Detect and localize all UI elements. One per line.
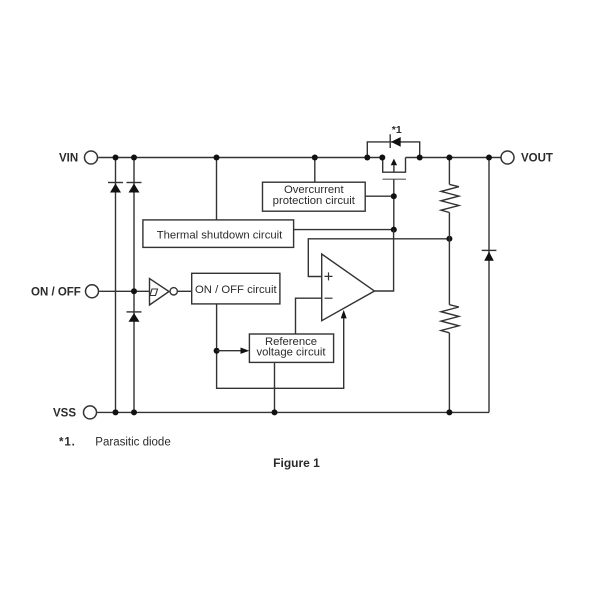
- wire op-amp output to gate node: [375, 230, 394, 291]
- junction gate-overcurrent: [391, 193, 397, 199]
- resistor R2: [441, 305, 459, 333]
- svg-text:Figure 1: Figure 1: [273, 456, 320, 470]
- box reference voltage circuit: [249, 334, 333, 362]
- label reference voltage circuit: [256, 336, 326, 359]
- wire VSS rail: [97, 411, 489, 413]
- junction VSS-A: [113, 409, 119, 415]
- junction VSS-R2: [446, 409, 452, 415]
- wire overcurrent box top to VIN rail: [314, 158, 316, 183]
- box thermal shutdown circuit: [143, 220, 294, 248]
- terminal VSS: [84, 406, 97, 419]
- junction reference-node: [214, 348, 220, 354]
- wire reference box top to op-amp minus input: [296, 298, 322, 334]
- junction VIN-B: [131, 155, 137, 161]
- junction gate-thermal-opamp: [391, 227, 397, 233]
- wire VIN rail right segment: [406, 157, 501, 159]
- svg-text:Thermal shutdown circuit: Thermal shutdown circuit: [157, 230, 283, 242]
- svg-text:VOUT: VOUT: [521, 153, 553, 165]
- junction feedback tap: [446, 236, 452, 242]
- box ON / OFF circuit: [192, 273, 280, 304]
- junction rail-loop-right: [417, 155, 423, 161]
- wire thermal box top to VIN rail: [216, 158, 218, 220]
- wire VOUT branch to resistor divider: [448, 158, 450, 185]
- wire ESD line B lower (ON/OFF to VSS): [133, 291, 135, 412]
- svg-text:*1.: *1.: [59, 437, 76, 449]
- junction VIN-A: [113, 155, 119, 161]
- wire overcurrent box to gate node: [365, 195, 394, 197]
- junction rail-M1-left: [379, 155, 385, 161]
- diode D2 (ESD, line B): [127, 183, 142, 193]
- wire op-amp plus input: [308, 239, 449, 277]
- terminal ON / OFF: [86, 285, 99, 298]
- svg-text:ON / OFF: ON / OFF: [31, 286, 81, 298]
- junction VIN-thermal: [214, 155, 220, 161]
- junction rail-loop-left: [364, 155, 370, 161]
- junction VIN rail-D4: [486, 155, 492, 161]
- label overcurrent protection circuit: [273, 184, 356, 207]
- transistor M1 (PMOS pass transistor): [383, 158, 406, 173]
- wire R2 to VSS: [448, 333, 450, 413]
- wire reference box bottom to VSS: [274, 362, 276, 412]
- wire ESD line A (VIN to VSS): [115, 158, 117, 413]
- resistor R1: [441, 184, 459, 212]
- wire ON/OFF box to reference node: [217, 304, 344, 388]
- parasitic diode *1: [390, 134, 401, 148]
- wire R1 to tap: [448, 213, 450, 305]
- svg-text:Parasitic diode: Parasitic diode: [95, 437, 170, 449]
- svg-text:ON / OFF circuit: ON / OFF circuit: [195, 284, 277, 296]
- gate bar of M1: [383, 178, 407, 180]
- diode D1 (ESD, line A): [108, 183, 123, 193]
- svg-text:voltage circuit: voltage circuit: [256, 347, 326, 359]
- Schmitt inverter U2: [150, 279, 178, 306]
- junction VSS-B: [131, 409, 137, 415]
- junction ON/OFF-B: [131, 288, 137, 294]
- op-amp U1: [322, 254, 375, 321]
- svg-text:protection circuit: protection circuit: [273, 195, 356, 207]
- svg-text:VIN: VIN: [59, 153, 78, 165]
- wire arrow into reference box: [217, 350, 241, 352]
- box overcurrent protection circuit: [263, 182, 366, 211]
- junction VSS-reference: [272, 409, 278, 415]
- diode D3 (ESD, line B lower): [127, 312, 142, 322]
- diode D4 (VSS to VOUT): [482, 250, 497, 260]
- wire VIN rail left segment: [98, 157, 383, 159]
- svg-text:VSS: VSS: [53, 408, 76, 420]
- wire inverter to ON/OFF box: [177, 290, 191, 292]
- wire ESD line B upper (VIN to ON/OFF): [133, 158, 135, 292]
- wire output diode branch: [488, 158, 490, 413]
- terminal VIN: [85, 151, 98, 164]
- arrowhead into reference box: [241, 348, 250, 354]
- wire gate line of M1: [393, 179, 395, 229]
- wire thermal box to gate node: [294, 229, 394, 231]
- svg-text:*1: *1: [392, 124, 402, 136]
- terminal VOUT: [501, 151, 514, 164]
- wire ON/OFF input: [99, 290, 149, 292]
- junction VIN-overcurrent: [312, 155, 318, 161]
- arrow into op-amp (reference input): [341, 310, 347, 319]
- parasitic diode loop wire: [367, 142, 419, 158]
- junction VIN rail-R1: [446, 155, 452, 161]
